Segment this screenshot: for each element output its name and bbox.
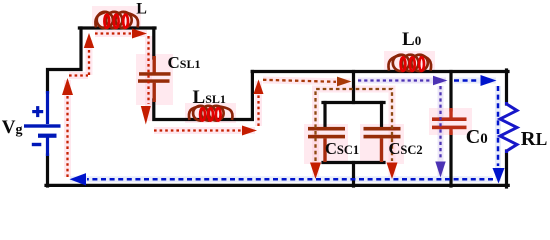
battery minus sign [32,143,42,146]
inductor LSL1 [189,106,233,121]
wire: SC top bar [323,101,384,104]
red dashed vertical along CSL1 [147,36,149,104]
battery long plate + [24,124,61,127]
wire: C0 branch upper [449,72,452,111]
red dashed jog near battery corner [69,46,89,76]
wire: top rail [79,26,155,29]
wire: drop from top rail to CSL1 [152,28,155,58]
battery short plate - [38,134,57,138]
red dashed horizontal under LSL1 [154,129,241,131]
red arrows [62,29,398,180]
arrow down SC right [387,163,398,180]
svg-text:L0: L0 [402,29,421,50]
inductor L [95,12,138,28]
capacitor CSC2 [364,127,401,162]
red dashed current path: battery return vertical [68,34,259,178]
arrow down at CSL1 [141,106,151,125]
battery plus sign [32,110,43,113]
svg-text:L: L [136,0,147,17]
wire: SC bottom bar [323,161,384,164]
svg-text:CSL1: CSL1 [168,53,201,72]
voltage source Vg (battery) [24,91,61,156]
capacitor C0 [432,108,467,135]
wires (black) [46,28,508,187]
wire: SC bottom center drop [352,163,355,187]
wire: right rail top [505,70,508,104]
svg-text:C0: C0 [466,126,488,148]
svg-text:Vg: Vg [2,117,23,138]
svg-text:CSC2: CSC2 [389,139,423,158]
wire: lower-left horizontal LSL1 wire [154,72,253,120]
capacitor CSL1 [138,56,171,102]
wire: bottom rail [46,184,508,187]
brown dashed box around CSC1/CSC2 [316,89,393,161]
arrow up near battery [62,78,73,95]
arrow right into SC junction [337,77,352,87]
arrow down SC left [310,163,321,180]
purple arrows [433,76,448,178]
inductor L0 [388,55,431,71]
battery top lead blue [46,91,49,124]
wire: SC right drop to CSC2 [380,103,383,129]
arrow up to mid rail [254,80,264,95]
blue dashed path [87,81,498,180]
red dashed top horizontal under L [95,32,131,34]
arrow up before L [84,33,94,48]
wire: right rail bottom [505,151,508,187]
red dashed vertical up after LSL1 [257,95,259,126]
purple dashed path [358,81,441,161]
wire: SC junction drop [352,72,355,103]
arrow right after L [132,29,147,39]
wire: C0 branch lower [449,133,452,186]
svg-text:RL: RL [521,128,548,150]
blue arrows [70,75,505,186]
capacitor CSC1 [308,127,345,162]
wire: mid rail [252,70,508,73]
wire: battery top lead upper black part [48,28,82,92]
red dashed horizontal to SC junction [263,80,336,82]
wire: SC left drop to CSC1 [323,103,326,129]
battery bottom lead blue [46,137,49,156]
svg-text:LSL1: LSL1 [193,87,226,108]
resistor RL zigzag [500,102,517,153]
wire: battery bottom lead black part [46,155,49,186]
arrow right after LSL1 [242,126,257,136]
